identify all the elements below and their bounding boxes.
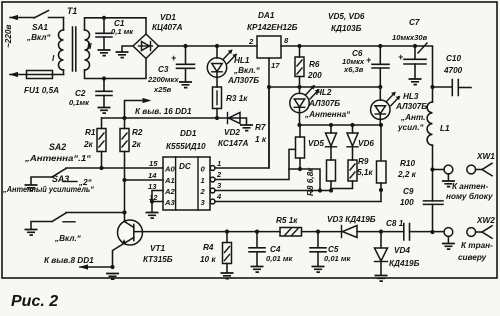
svg-text:10мкх30в: 10мкх30в [392,33,428,42]
svg-text:HL2: HL2 [316,88,332,97]
svg-text:T1: T1 [67,6,77,16]
ground (R4) [221,273,234,279]
svg-text:К тран-: К тран- [461,241,493,250]
svg-text:+: + [366,55,371,65]
connector XW1 [433,152,496,201]
svg-text:R8 6,8к: R8 6,8к [306,167,315,196]
svg-text:2: 2 [216,170,222,179]
svg-text:VD5: VD5 [308,139,324,148]
svg-text:х25в: х25в [153,85,172,94]
wire secondary top to bridge [85,18,147,35]
resistor R8 [306,160,336,196]
svg-text:2к: 2к [131,140,142,149]
ground (VT1 emitter) [106,274,119,280]
svg-text:R7: R7 [255,123,266,132]
svg-text:„Вкл.“: „Вкл.“ [233,66,261,75]
svg-text:2,2 к: 2,2 к [397,170,417,179]
svg-text:C4: C4 [270,245,281,254]
svg-text:R5 1к: R5 1к [276,216,298,225]
svg-text:1: 1 [217,159,221,168]
svg-text:SA1: SA1 [32,23,48,32]
svg-text:FU1 0,5A: FU1 0,5A [24,86,59,95]
svg-text:„Антенна“: „Антенна“ [304,110,351,119]
svg-text:АЛ307Б: АЛ307Б [395,102,427,111]
ground (XW1) [442,181,455,187]
svg-text:0,1мк: 0,1мк [69,98,90,107]
svg-text:КР142ЕН12Б: КР142ЕН12Б [247,23,298,32]
wire to DD1 pin16 arrow [125,98,192,118]
wire DD1 pin1 row to DA1 adj column [215,87,269,168]
capacitor C9 [400,187,443,207]
wire +5V logic rail [102,117,241,119]
ground (C4) [251,267,264,273]
svg-text:„Антенный усилитель“: „Антенный усилитель“ [2,185,95,194]
svg-text:R6: R6 [309,60,320,69]
svg-text:C5: C5 [328,245,339,254]
svg-text:C9: C9 [403,187,414,196]
capacitor C10 [433,54,472,96]
svg-text:R10: R10 [400,159,415,168]
svg-text:200: 200 [307,71,322,80]
wire A0 row [66,167,163,169]
ground (bridge) [116,52,129,58]
switch SA2 [31,169,93,188]
svg-text:2к: 2к [83,140,94,149]
wire top 220V rail with arrow [9,15,34,20]
wire R7 side tap [289,149,296,169]
diode VD6 [347,125,374,160]
ground (SA3) [25,230,38,236]
zener VD2 [218,113,248,149]
inductor L1 [427,87,450,232]
svg-text:R9: R9 [358,157,369,166]
svg-text:„Вкл.“: „Вкл.“ [54,234,82,243]
svg-text:C2: C2 [75,89,86,98]
svg-text:VD3 КД419Б: VD3 КД419Б [327,215,376,224]
capacitor C4 [249,232,294,266]
wire collector column [124,180,126,222]
svg-text:C8 1: C8 1 [386,219,404,228]
svg-text:17: 17 [271,61,280,70]
wire A1 row [125,179,164,181]
svg-text:0,01 мк: 0,01 мк [266,254,294,263]
svg-text:4: 4 [216,192,222,201]
svg-text:АЛ307Б: АЛ307Б [308,99,340,108]
svg-text:2200мкх: 2200мкх [147,75,179,84]
svg-text:2: 2 [200,187,206,196]
svg-text:усил.“: усил.“ [397,123,424,132]
ground (C1) [98,50,111,56]
svg-text:К555ИД10: К555ИД10 [166,142,206,151]
rectifier bridge VD1 [133,13,183,59]
svg-text:VD1: VD1 [160,13,176,22]
svg-text:SA3: SA3 [52,174,69,184]
ground (VD2) [240,125,253,131]
svg-text:VD6: VD6 [358,139,374,148]
transformer T1 [52,6,92,75]
svg-text:C3: C3 [158,65,169,74]
svg-text:10 к: 10 к [200,255,216,264]
svg-text:АЛ307Б: АЛ307Б [227,76,259,85]
svg-text:VD5, VD6: VD5, VD6 [328,12,365,21]
svg-text:2: 2 [248,37,254,46]
wire secondary bottom to bridge [85,58,147,79]
svg-text:R2: R2 [132,128,143,137]
svg-text:+: + [398,52,403,62]
svg-text:II: II [87,42,92,51]
resistor R10 [377,125,417,183]
svg-text:XW1: XW1 [476,152,495,161]
svg-text:К антен-: К антен- [452,182,488,191]
wire bridge left to ground [122,46,133,51]
svg-text:XW2: XW2 [476,216,495,225]
resistor R2 [120,118,143,180]
node HL1 tap [215,44,219,48]
node XW1 line junction [430,167,434,171]
transistor VT1 [113,220,173,267]
resistor R3 [213,87,249,118]
svg-text:1 к: 1 к [255,135,267,144]
wire +12V rail [159,45,258,47]
diode VD4 [375,232,420,275]
wire RF control line [134,231,280,233]
svg-text:R4: R4 [203,243,214,252]
svg-text:5,1к: 5,1к [357,168,373,177]
wire DD1 pin4 row to R10 bottom [215,183,381,202]
svg-text:100: 100 [400,198,414,207]
connector XW2 [444,216,495,262]
svg-text:DD1: DD1 [180,129,197,138]
svg-text:13: 13 [148,182,157,191]
wire DD1 pin2 row to R7 bottom [215,169,320,191]
switch SA3 [31,213,82,243]
svg-text:A3: A3 [164,198,175,207]
wire SA3 to collector column [66,212,125,214]
svg-text:К выв. 16 DD1: К выв. 16 DD1 [135,107,192,116]
node junction C2 tap [102,76,106,80]
ground (XW2) [442,244,455,250]
svg-text:VD2: VD2 [224,128,240,137]
svg-text:DA1: DA1 [258,11,275,20]
wire DA1 out to right rail [281,46,433,87]
svg-text:C10: C10 [446,54,461,63]
svg-text:VD4: VD4 [394,246,410,255]
svg-text:14: 14 [148,171,157,180]
ground (DD1 A2 A3) [146,213,159,219]
svg-text:R1: R1 [85,128,96,137]
DD1 output bubbles [210,166,215,171]
svg-text:0,01 мк: 0,01 мк [324,254,352,263]
svg-text:A1: A1 [164,176,175,185]
ground (C3) [179,82,192,88]
diode VD5 [308,125,337,160]
capacitor C2 [69,79,112,108]
svg-text:HL3: HL3 [403,92,419,101]
node C3 tap [183,44,187,48]
svg-text:КД103Б: КД103Б [331,24,362,33]
node top of L1 column [430,85,434,89]
pin 13 A2 / pin 12 A3 ground bracket [150,191,163,212]
svg-text:4700: 4700 [443,66,463,75]
wire rail B [300,124,382,126]
LED HL3 [371,87,428,132]
capacitor C1 [96,18,134,49]
capacitor C5 [310,232,352,266]
svg-text:0,1 мк: 0,1 мк [111,27,134,36]
svg-text:VT1: VT1 [150,244,165,253]
fuse FU1 [9,71,64,96]
svg-text:+: + [171,53,176,63]
ground (VD4) [375,276,388,282]
capacitor C6 [342,46,389,87]
resistor R5 [276,216,302,236]
svg-text:„Ант.: „Ант. [400,113,425,122]
wire DD1 pin3 row [215,190,331,192]
svg-text:A2: A2 [164,187,175,196]
LED HL2 [290,85,351,125]
diode VD3 [327,215,376,238]
svg-text:ному блоку: ному блоку [446,191,493,201]
svg-text:C7: C7 [409,18,420,27]
svg-text:1: 1 [201,176,205,185]
svg-text:КД419Б: КД419Б [389,259,420,268]
svg-text:SA2: SA2 [49,142,66,152]
svg-text:„Антенна“.1“: „Антенна“.1“ [24,154,92,163]
svg-text:DC: DC [179,162,192,171]
resistor R6 [295,46,322,87]
svg-text:К выв.8 DD1: К выв.8 DD1 [44,256,94,265]
capacitor C3 electrolytic [147,46,195,94]
ground (SA2) [25,185,38,191]
ground (C7) [409,79,422,85]
svg-text:КС147А: КС147А [218,139,248,148]
resistor R7 [255,123,305,169]
capacitor C7 [392,18,428,78]
wire emitter to DD1 pin8 arrow [44,256,115,270]
svg-text:~220в: ~220в [4,25,13,48]
regulator DA1 KR142EN12B [247,11,298,70]
LED HL1 [207,46,260,87]
svg-text:КЦ407А: КЦ407А [152,23,183,32]
wire R9 bottom jog [331,181,353,189]
svg-text:х6,3в: х6,3в [343,65,364,74]
svg-text:Рис. 2: Рис. 2 [11,293,58,310]
svg-text:A0: A0 [164,165,175,174]
resistor R1 [83,118,106,168]
svg-text:R3 1к: R3 1к [226,94,248,103]
wire adj rail A [269,86,380,88]
resistor R4 [200,232,232,272]
resistor R9 [348,157,373,181]
svg-text:„Вкл“: „Вкл“ [26,33,51,42]
IC DD1 K555ID10 [148,129,222,210]
svg-text:сиверу: сиверу [458,253,487,262]
svg-text:L1: L1 [440,124,450,133]
node junction C1 tap [102,16,106,20]
capacitor C8 [386,219,410,240]
svg-text:15: 15 [149,159,158,168]
svg-text:КТ315Б: КТ315Б [143,255,173,264]
ground (C5) [312,267,325,273]
switch SA1 [26,11,64,43]
ground (C2) [98,108,111,114]
svg-text:HL1: HL1 [234,56,250,65]
wire DA1 pin17 down [268,58,270,168]
